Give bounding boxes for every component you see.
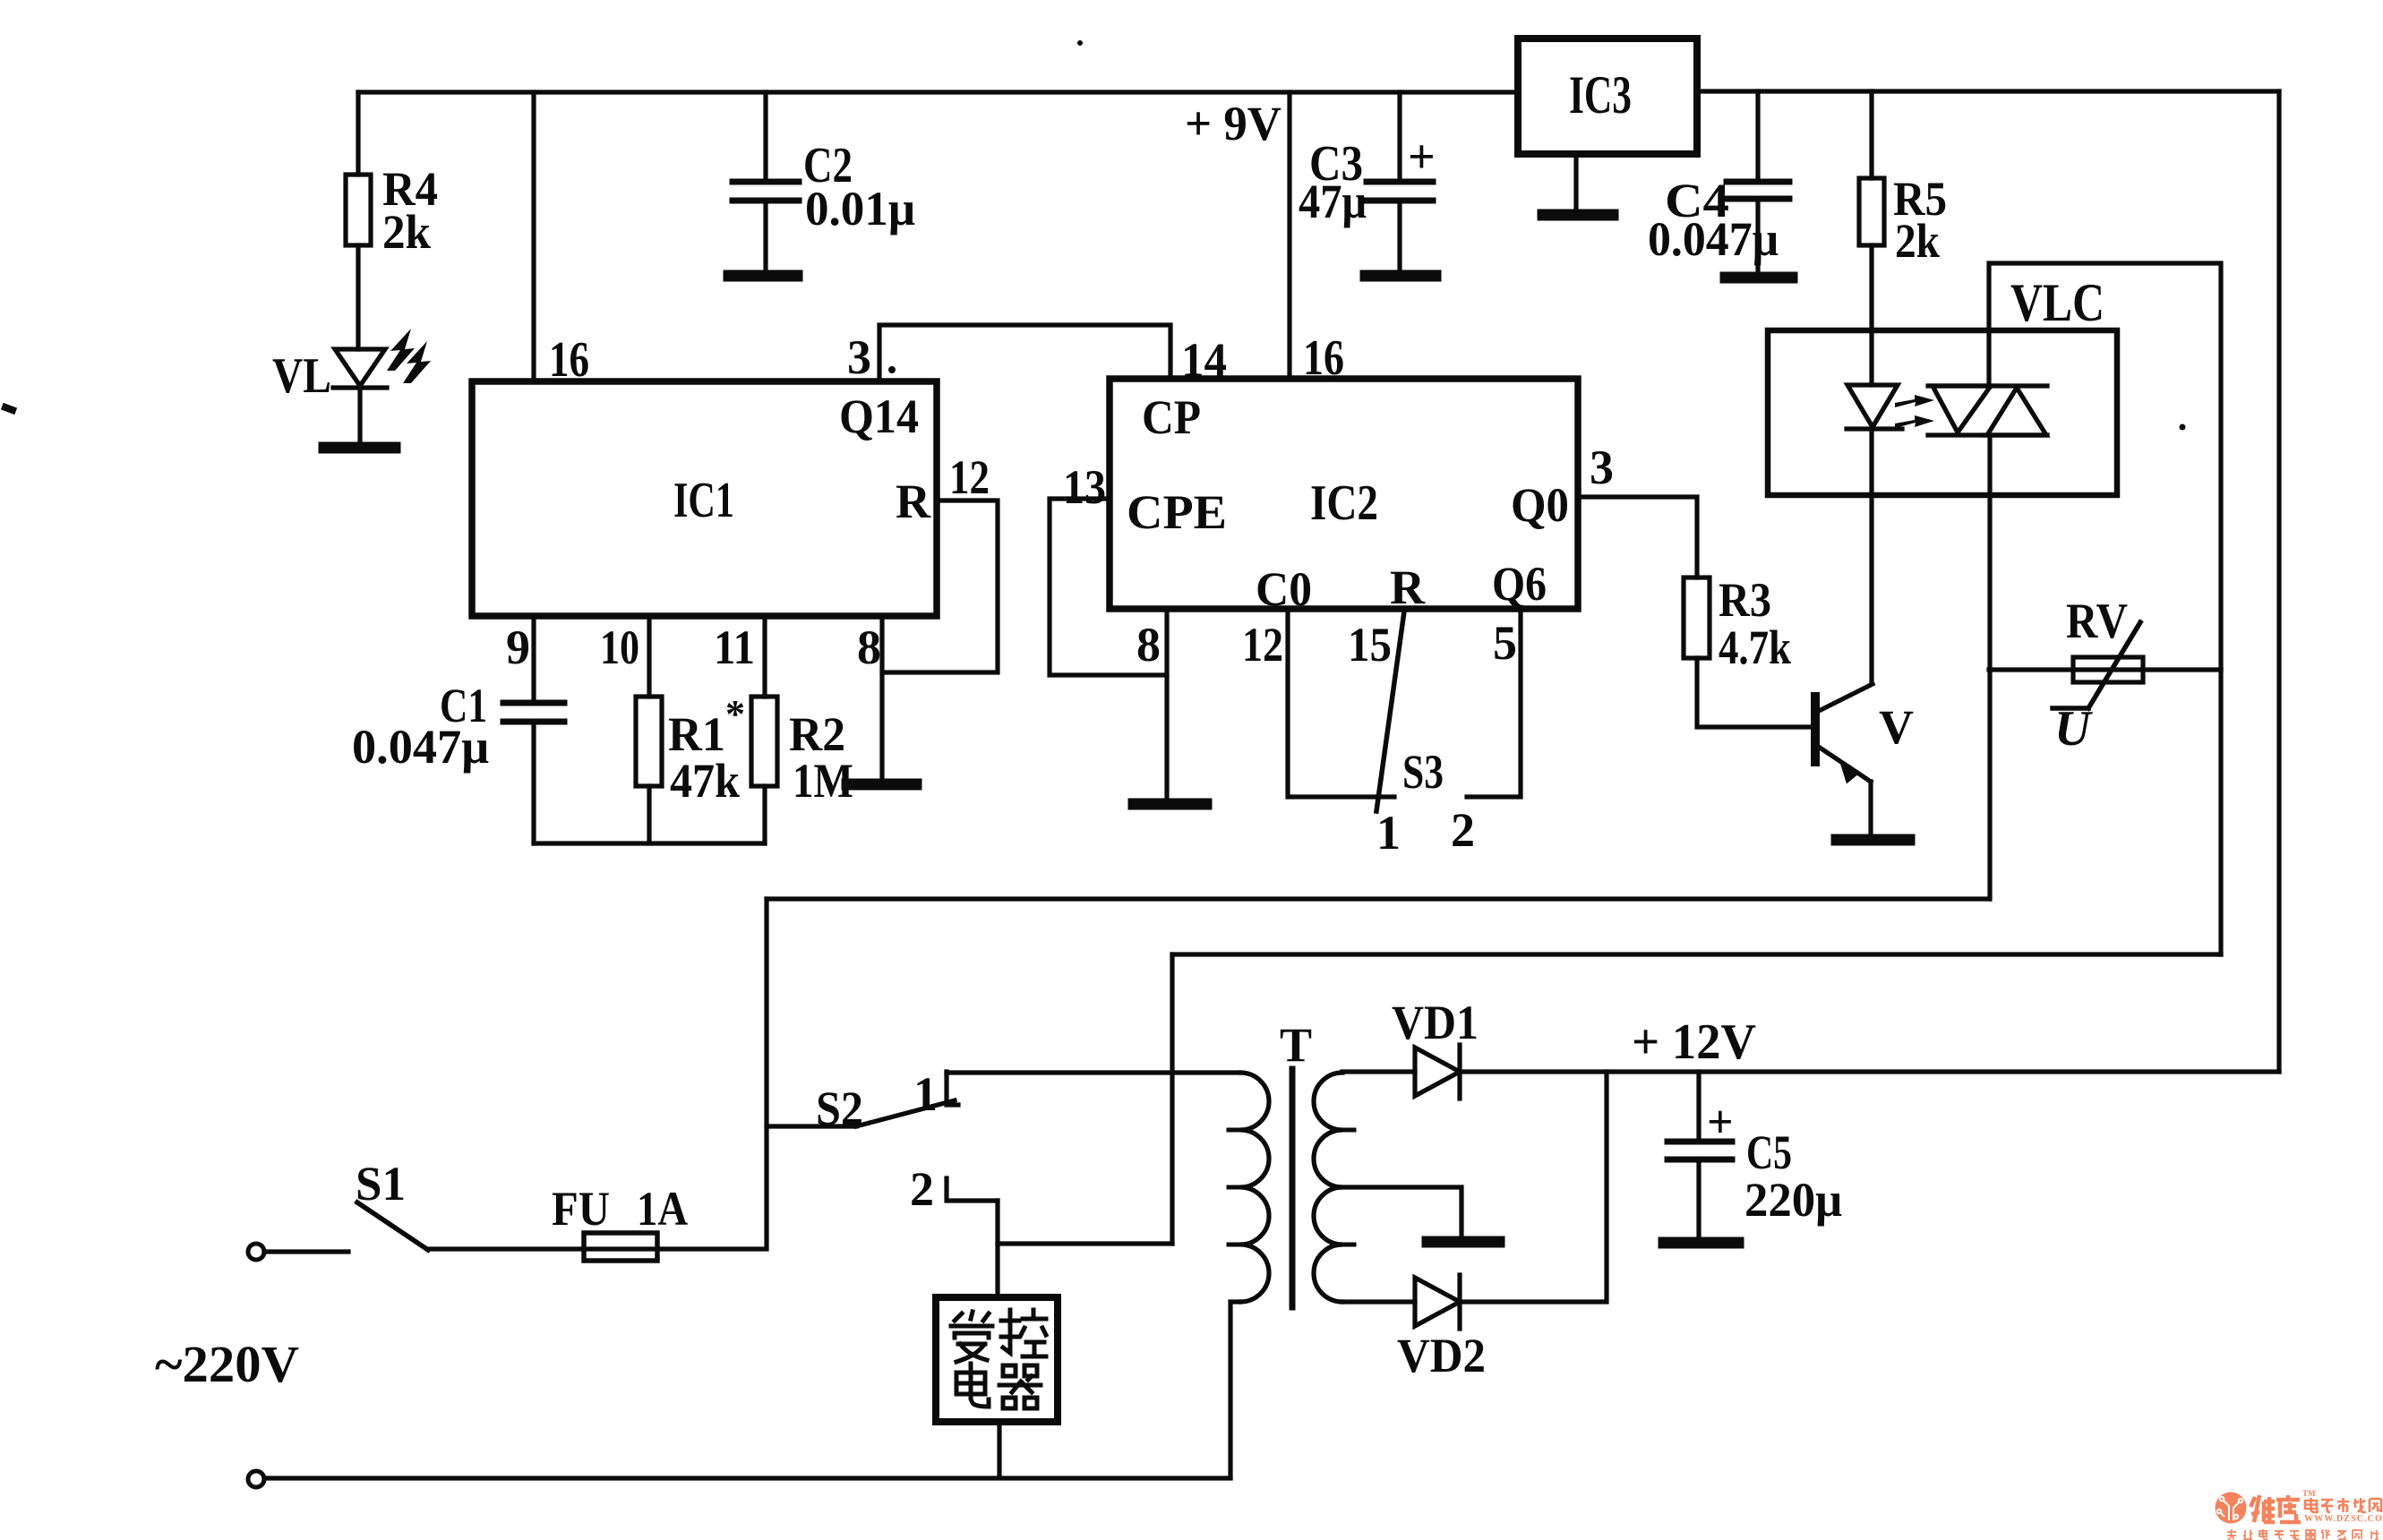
wire IC2 pin8 to ground <box>1164 609 1169 801</box>
wire C2 to ground <box>763 201 767 273</box>
svg-text:V: V <box>1879 700 1914 754</box>
watermark logo 维库 <box>2216 1493 2247 1524</box>
wire line B drop to contact-2 net <box>1170 954 1174 1244</box>
svg-text:S1: S1 <box>356 1157 406 1211</box>
svg-text:15: 15 <box>1348 618 1392 672</box>
triac inside VLC <box>1928 383 2047 388</box>
wire secondary center tap <box>1336 1187 1462 1239</box>
wire C1 to bottom rail <box>531 722 536 843</box>
char 受 <box>951 1312 992 1362</box>
svg-text:+ 12V: + 12V <box>1632 1014 1756 1070</box>
svg-text:Q14: Q14 <box>839 389 919 443</box>
svg-text:+: + <box>1707 1097 1734 1148</box>
optocoupler VLC case <box>1768 330 2117 495</box>
LED inside VLC <box>1847 385 1898 427</box>
watermark text 电子市场网 <box>2305 1498 2381 1512</box>
svg-text:12: 12 <box>949 450 990 504</box>
svg-text:8: 8 <box>857 620 881 674</box>
svg-text:R3: R3 <box>1719 573 1771 627</box>
diode VD2 <box>1415 1278 1460 1326</box>
wire IC1 pin3 to IC2 pin14 <box>879 325 1170 381</box>
wire secondary bottom to VD2 <box>1342 1299 1415 1304</box>
svg-text:14: 14 <box>1181 333 1227 387</box>
svg-text:0.01μ: 0.01μ <box>805 182 915 235</box>
wire IC2 Q6 pin5 to S3 contact 2 <box>1467 609 1521 797</box>
ground (V emitter) <box>1837 834 1909 846</box>
svg-text:1: 1 <box>1376 806 1401 860</box>
char 器 <box>999 1365 1041 1408</box>
svg-text:9: 9 <box>506 620 530 674</box>
ground (C3) <box>1366 270 1436 282</box>
svg-text:IC1: IC1 <box>673 473 734 528</box>
speck (scan noise top) <box>1077 40 1083 46</box>
char 电 <box>956 1364 989 1407</box>
svg-text:0.047μ: 0.047μ <box>352 720 489 774</box>
transformer T primary winding <box>1240 1073 1269 1302</box>
wire rail to C4 <box>1755 91 1760 182</box>
wire R1 to bottom rail <box>647 786 651 843</box>
svg-text:0.047μ: 0.047μ <box>1648 212 1779 266</box>
wire R5 to LED of VLC <box>1869 245 1873 385</box>
wire mains neutral bottom <box>264 1476 1230 1480</box>
LED VL light arrows <box>387 329 431 383</box>
svg-text:S3: S3 <box>1402 745 1444 799</box>
svg-text:2k: 2k <box>382 205 431 259</box>
switch S1 blade <box>357 1202 428 1250</box>
svg-text:12: 12 <box>1242 618 1283 672</box>
wire C5 to ground <box>1696 1159 1701 1240</box>
diode VD1 <box>1415 1048 1460 1096</box>
wire secondary top to VD1 <box>1342 1069 1415 1074</box>
wire rail to R5 <box>1869 91 1873 178</box>
ground (C5) <box>1664 1237 1738 1249</box>
svg-text:R: R <box>1390 560 1426 614</box>
wire line A (mains hot to triac) <box>767 896 1989 901</box>
svg-text:C0: C0 <box>1256 562 1312 616</box>
wire contact2 down to junction and appliance <box>995 1201 999 1297</box>
resistor R3 <box>1684 577 1710 658</box>
svg-text:T: T <box>1280 1018 1312 1072</box>
LED VLC arrows <box>1895 395 1934 428</box>
node speck <box>5 407 13 410</box>
wire IC1 pin10 to R1 <box>647 616 651 697</box>
svg-text:5: 5 <box>1493 616 1517 670</box>
capacitor C5 (electrolytic) <box>1667 1139 1732 1145</box>
wire IC2 pin16 <box>1287 92 1291 379</box>
wire junction to line B riser <box>998 1241 1172 1245</box>
svg-text:Q6: Q6 <box>1492 557 1547 611</box>
svg-text:IC3: IC3 <box>1569 65 1632 124</box>
fuse FU <box>584 1233 657 1261</box>
wire R4 to VL <box>356 245 360 349</box>
svg-text:2k: 2k <box>1895 214 1940 268</box>
varistor RV wire <box>1989 667 2221 672</box>
wire R3 to transistor base <box>1697 658 1812 727</box>
svg-text:11: 11 <box>714 620 755 674</box>
svg-text:IC2: IC2 <box>1310 475 1378 531</box>
ground (IC3) <box>1543 210 1613 221</box>
ground (C2) <box>729 270 797 282</box>
svg-text:VLC: VLC <box>2010 273 2104 332</box>
switch S2 blade <box>856 1100 955 1126</box>
svg-text:1: 1 <box>913 1067 938 1121</box>
svg-text:R2: R2 <box>789 707 845 761</box>
transformer T secondary winding <box>1314 1073 1342 1302</box>
wire LED cathode down to transistor collector <box>1869 429 1873 683</box>
wire line A drop to fuse output <box>764 899 768 1247</box>
svg-text:2: 2 <box>910 1162 934 1216</box>
resistor R5 <box>1859 178 1884 245</box>
svg-text:10: 10 <box>600 620 639 674</box>
svg-text:TM: TM <box>2302 1489 2316 1498</box>
svg-text:3: 3 <box>847 330 871 384</box>
svg-text:RV: RV <box>2066 594 2128 649</box>
wire VL to ground <box>357 388 362 445</box>
svg-text:C5: C5 <box>1746 1125 1792 1179</box>
wire triac lower terminal down to mains line <box>1987 435 1992 899</box>
capacitor C3 (electrolytic) <box>1367 179 1433 185</box>
svg-text:U: U <box>2054 701 2093 757</box>
wire IC3 ground pin <box>1573 154 1578 212</box>
wire S2 contact1 to transformer primary <box>947 1070 1240 1074</box>
transistor V <box>1811 697 1820 762</box>
wire S1 pole <box>264 1249 348 1253</box>
wire V emitter to ground <box>1868 782 1873 837</box>
wire +9V top rail (left of IC3) <box>358 90 1518 94</box>
switch S2 contact 1 stub <box>947 1072 958 1105</box>
switch S3 blade (from R pin15) <box>1376 612 1404 811</box>
appliance text 受控电器 (drawn strokes) <box>951 1310 1046 1408</box>
svg-text:+: + <box>1408 130 1436 184</box>
wire right edge +12V riser <box>2276 91 2281 1072</box>
watermark slogan 专业电子元器件交易网站 <box>2227 1529 2379 1540</box>
switch S2 contact 2 stub <box>947 1178 998 1201</box>
svg-text:1A: 1A <box>637 1182 688 1236</box>
regulator IC3 <box>1518 38 1697 154</box>
svg-text:S2: S2 <box>816 1082 863 1135</box>
svg-text:4.7k: 4.7k <box>1719 620 1791 674</box>
svg-text:1M: 1M <box>793 754 853 808</box>
ground (VL) <box>324 442 395 454</box>
svg-text:CP: CP <box>1142 390 1201 444</box>
wire R2 to bottom rail <box>762 786 767 843</box>
wire C3 to ground <box>1397 201 1402 273</box>
svg-text:8: 8 <box>1136 618 1161 672</box>
wire rail to R4 <box>356 92 360 175</box>
resistor R1 <box>636 697 662 786</box>
wire line B (triac output to load) <box>1172 952 2221 956</box>
wire IC1 pin11 to R2 <box>762 616 767 697</box>
svg-text:~220V: ~220V <box>155 1335 299 1393</box>
svg-text:R: R <box>896 475 931 528</box>
varistor RV <box>2073 657 2143 682</box>
wire VD2 output riser <box>1460 1072 1607 1302</box>
svg-text:3: 3 <box>1590 441 1614 494</box>
wire IC1 pin9 to C1 <box>531 616 536 703</box>
wire RV right leg down to line B <box>2218 670 2223 954</box>
wire IC2 Q0 pin3 to R3 <box>1578 497 1697 577</box>
wire C4 to ground <box>1755 199 1760 275</box>
svg-text:*: * <box>725 692 745 736</box>
ground (IC1 pin 8) <box>847 779 916 791</box>
svg-text:VD2: VD2 <box>1397 1329 1486 1382</box>
svg-text:CPE: CPE <box>1127 485 1227 539</box>
wire rail to C3 <box>1397 92 1402 182</box>
resistor R4 <box>346 175 371 245</box>
wire IC1 pin8 to ground <box>879 616 884 782</box>
terminal lower <box>248 1471 264 1487</box>
wire IC2 CPE pin13 loop <box>1050 499 1167 675</box>
resistor R2 <box>751 697 777 786</box>
wire C5 tap <box>1696 1072 1701 1142</box>
svg-text:WWW.DZSC.COM: WWW.DZSC.COM <box>2304 1514 2383 1524</box>
wire IC1 R pin12 loop <box>882 500 998 672</box>
appliance box 受控电器 <box>936 1297 1058 1422</box>
svg-text:13: 13 <box>1063 460 1106 514</box>
svg-text:VD1: VD1 <box>1392 996 1479 1049</box>
wire appliance to bottom rail <box>997 1422 1001 1477</box>
capacitor C4 <box>1727 179 1789 185</box>
wire C1/R1/R2 bottom rail <box>534 841 765 845</box>
IC2 <box>1110 379 1578 609</box>
wire +12V top rail (right of IC3) <box>1697 89 2279 93</box>
LED VL <box>335 349 385 386</box>
wire S2 pole <box>767 1124 856 1128</box>
wire primary bottom lead <box>1230 1302 1240 1477</box>
speck (scan noise right) <box>2180 424 2186 431</box>
wire +12V line <box>1460 1069 2279 1074</box>
svg-text:Q0: Q0 <box>1511 478 1569 532</box>
optocoupler VLC outer loop <box>1989 263 2221 670</box>
ground (center tap) <box>1427 1236 1499 1248</box>
capacitor C1 <box>503 700 564 706</box>
ground (IC2 pin 8) <box>1134 799 1206 810</box>
svg-text:47k: 47k <box>670 754 740 808</box>
transformer T core <box>1290 1069 1296 1307</box>
svg-text:+ 9V: + 9V <box>1185 97 1282 150</box>
capacitor C2 <box>733 179 799 185</box>
svg-text:47μ: 47μ <box>1299 175 1367 228</box>
wire IC2 C0 pin12 to S3 contact 1 <box>1288 609 1394 797</box>
svg-text:16: 16 <box>549 332 589 388</box>
ground (C4) <box>1726 272 1792 284</box>
svg-text:2: 2 <box>1451 803 1475 857</box>
svg-text:16: 16 <box>1303 330 1344 386</box>
wire S1 to fuse to corner <box>428 1246 767 1251</box>
terminal S1 upper <box>248 1244 264 1260</box>
wire rail to C2 <box>763 92 767 182</box>
wire IC1 pin16 <box>531 92 536 381</box>
char 控 <box>1001 1310 1046 1356</box>
svg-text:VL: VL <box>272 348 331 404</box>
IC1 <box>472 381 937 616</box>
watermark text 维库 <box>2250 1495 2301 1522</box>
svg-text:FU: FU <box>552 1182 610 1236</box>
svg-text:R1: R1 <box>668 707 725 761</box>
svg-text:220μ: 220μ <box>1744 1173 1842 1227</box>
